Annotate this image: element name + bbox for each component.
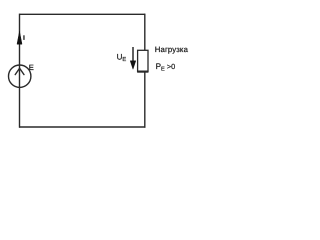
load box (Нагрузка) (138, 50, 148, 71)
svg-text:Нагрузка: Нагрузка (155, 45, 189, 54)
svg-text:E: E (29, 63, 34, 72)
wire bottom (19, 126, 146, 128)
wire left (passes through source circle) (19, 14, 21, 128)
wire right upper segment (144, 14, 146, 51)
current arrow I (filled, pointing up, on left wire) (17, 31, 22, 44)
voltage arrow U_E (filled, pointing down) (132, 47, 134, 62)
arrowhead inside source (open chevron pointing up) (15, 68, 24, 74)
wire top: left corner to right corner (20, 13, 146, 15)
label I (23, 35, 24, 40)
wire right lower segment (144, 73, 146, 128)
current source E (circle) (9, 65, 31, 87)
